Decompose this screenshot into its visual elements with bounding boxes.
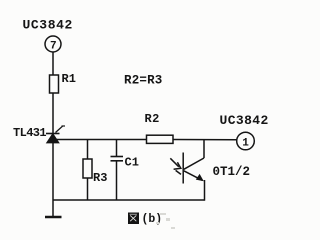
figure caption glyph 图 [128,213,139,225]
wire C1 to ground bus [116,161,118,200]
wire bus down to R3 [87,140,89,160]
resistor R2 [147,135,174,143]
svg-text:C1: C1 [125,156,139,170]
svg-text:R2=R3: R2=R3 [124,74,163,88]
svg-text:R3: R3 [93,171,107,185]
svg-text:TL431: TL431 [13,126,46,140]
ground bus wire [53,199,205,201]
resistor R3 [83,159,92,178]
resistor R1 [50,75,59,93]
pin 1 circle [237,132,255,150]
pin 7 circle [45,36,61,53]
wire R2 to pin 1 circle [173,139,237,141]
wire pin7 to R1 [52,52,54,75]
ground [45,216,62,218]
wire R3 to ground bus [87,178,89,200]
shunt regulator TL431 [46,126,65,143]
svg-text:0T1/2: 0T1/2 [213,165,251,179]
svg-text:R2: R2 [145,112,160,126]
svg-text:UC3842: UC3842 [220,113,269,128]
wire node bus (TL431 to R2) [54,139,147,141]
wire pin1 net down to collector [203,140,205,159]
svg-text:1: 1 [242,138,249,150]
faint jpeg speckle marks [156,213,175,229]
wire emitter to ground bus [204,180,206,201]
wire bus down to C1 [116,140,118,157]
capacitor C1 [111,157,124,161]
wire R1 to TL431 cathode [52,93,54,134]
svg-text:UC3842: UC3842 [23,18,73,33]
phototransistor OT1/2 [170,153,204,184]
svg-text:R1: R1 [62,72,76,86]
wire TL431 anode down to ground [52,141,54,216]
svg-text:7: 7 [50,41,57,53]
svg-text:(b): (b) [142,213,163,226]
